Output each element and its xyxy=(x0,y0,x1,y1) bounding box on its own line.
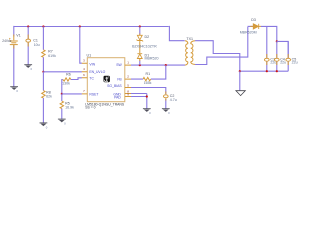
svg-text:D3: D3 xyxy=(251,18,256,22)
wire VIN branch xyxy=(80,27,82,64)
svg-text:D2: D2 xyxy=(145,35,150,39)
svg-text:V1: V1 xyxy=(16,34,20,38)
wire C1 branch xyxy=(27,27,29,65)
diode D1 xyxy=(137,54,142,59)
transformer TX1 xyxy=(185,41,195,65)
ground 0 under R5 xyxy=(58,119,66,125)
junction rail left xyxy=(239,70,241,72)
junction rail C4 xyxy=(276,70,278,72)
svg-text:MBR520: MBR520 xyxy=(145,56,159,60)
svg-text:10u: 10u xyxy=(34,43,40,47)
svg-text:0: 0 xyxy=(16,89,18,93)
capacitor C1 xyxy=(26,39,31,42)
junction rail C3 xyxy=(266,70,268,72)
junction PAD node xyxy=(146,95,148,97)
junction clamp top xyxy=(139,25,141,27)
junction EN node xyxy=(42,71,44,73)
capacitor C3 xyxy=(265,58,270,61)
svg-text:4.7u: 4.7u xyxy=(170,98,177,102)
svg-text:22u: 22u xyxy=(280,60,286,64)
wire SG_BIAS branch xyxy=(131,88,166,109)
wire secondary bottom staircase xyxy=(195,27,248,65)
wire C3 branch xyxy=(266,26,268,71)
svg-text:619k: 619k xyxy=(48,54,56,58)
voltage source V1 xyxy=(9,35,18,49)
svg-text:R6: R6 xyxy=(66,72,71,76)
svg-text:7: 7 xyxy=(83,89,85,93)
svg-text:2: 2 xyxy=(127,75,129,79)
ground 0 under C1 xyxy=(24,65,32,71)
svg-text:MBR520M: MBR520M xyxy=(240,30,257,34)
wire clamp branch xyxy=(139,27,141,66)
svg-text:3: 3 xyxy=(83,59,85,63)
junction R7 top xyxy=(42,25,44,27)
wire secondary top staircase xyxy=(195,41,240,71)
resistor R7 xyxy=(42,50,45,57)
resistor R5 xyxy=(60,101,63,108)
svg-text:4: 4 xyxy=(83,67,85,71)
wire output top xyxy=(261,26,277,41)
wire EN_UVLO xyxy=(43,71,82,73)
svg-text:165k: 165k xyxy=(144,81,152,85)
capacitor C2 xyxy=(164,95,169,98)
capacitor C5 xyxy=(286,58,291,61)
diode D3 xyxy=(248,24,262,29)
ground output xyxy=(236,91,245,96)
wire C4 branch xyxy=(276,41,278,71)
junction C1 top xyxy=(27,25,29,27)
svg-text:SW: SW xyxy=(116,63,122,67)
svg-text:EN_UVLO: EN_UVLO xyxy=(89,70,105,74)
svg-text:130k: 130k xyxy=(62,81,70,85)
wire TC branch xyxy=(62,78,82,94)
resistor R1 xyxy=(143,77,151,80)
wire V1 branch vertical xyxy=(13,26,15,87)
svg-text:C1: C1 xyxy=(33,38,38,42)
op-amp U1 LM5180 box xyxy=(82,58,131,102)
svg-text:0: 0 xyxy=(46,125,48,129)
svg-text:RSET: RSET xyxy=(89,93,98,97)
junction output mid xyxy=(276,40,278,42)
svg-text:1: 1 xyxy=(127,61,129,65)
svg-text:16.9k: 16.9k xyxy=(65,105,74,109)
svg-text:VIN: VIN xyxy=(89,63,95,67)
ground 0 under R8 xyxy=(40,123,48,129)
wire output mid xyxy=(277,41,288,58)
resistor R8 xyxy=(42,91,45,98)
ground 0 under C2 xyxy=(162,109,170,115)
svg-text:6: 6 xyxy=(83,73,85,77)
ground 0 under V1 xyxy=(10,87,18,93)
svg-text:0: 0 xyxy=(149,111,151,115)
TI logo xyxy=(104,76,110,82)
zener diode D2 xyxy=(137,35,144,41)
svg-text:24Vdc: 24Vdc xyxy=(2,39,11,43)
svg-text:PAD: PAD xyxy=(114,95,121,99)
junction VIN branch top xyxy=(79,25,81,27)
ground 0 under GND xyxy=(143,109,151,115)
svg-text:0: 0 xyxy=(64,122,66,126)
svg-text:SS = 0: SS = 0 xyxy=(85,106,95,110)
svg-text:FB: FB xyxy=(117,78,122,82)
svg-text:SG_BIAS: SG_BIAS xyxy=(107,84,122,88)
wire RSET xyxy=(62,93,82,95)
svg-text:62k: 62k xyxy=(46,95,52,99)
junction FB resistor top xyxy=(165,64,167,66)
svg-text:BZX84C10ZTR: BZX84C10ZTR xyxy=(132,44,157,48)
wire top VIN rail xyxy=(14,26,169,28)
wire SW net xyxy=(131,64,185,66)
wire FB branch xyxy=(131,65,166,79)
wire EN node down xyxy=(42,72,44,123)
svg-text:TX1: TX1 xyxy=(186,37,193,41)
svg-text:0: 0 xyxy=(168,111,170,115)
wire primary top xyxy=(169,26,184,41)
resistor R6 xyxy=(63,78,71,81)
junction RSET node xyxy=(61,93,63,95)
wire GND PAD branch xyxy=(131,94,147,109)
svg-text:22u: 22u xyxy=(292,60,298,64)
wire R7 branch xyxy=(42,27,44,72)
svg-text:TC: TC xyxy=(89,76,94,80)
wire RSET node down xyxy=(61,94,63,119)
svg-text:R1: R1 xyxy=(146,72,151,76)
wire output ground rail xyxy=(240,70,288,72)
junction D1 bottom xyxy=(139,64,141,66)
wire C5 branch xyxy=(287,41,289,71)
svg-text:U1: U1 xyxy=(87,54,92,58)
wire rail to ground xyxy=(239,71,241,90)
capacitor C4 xyxy=(275,58,280,61)
svg-text:0: 0 xyxy=(31,67,33,71)
